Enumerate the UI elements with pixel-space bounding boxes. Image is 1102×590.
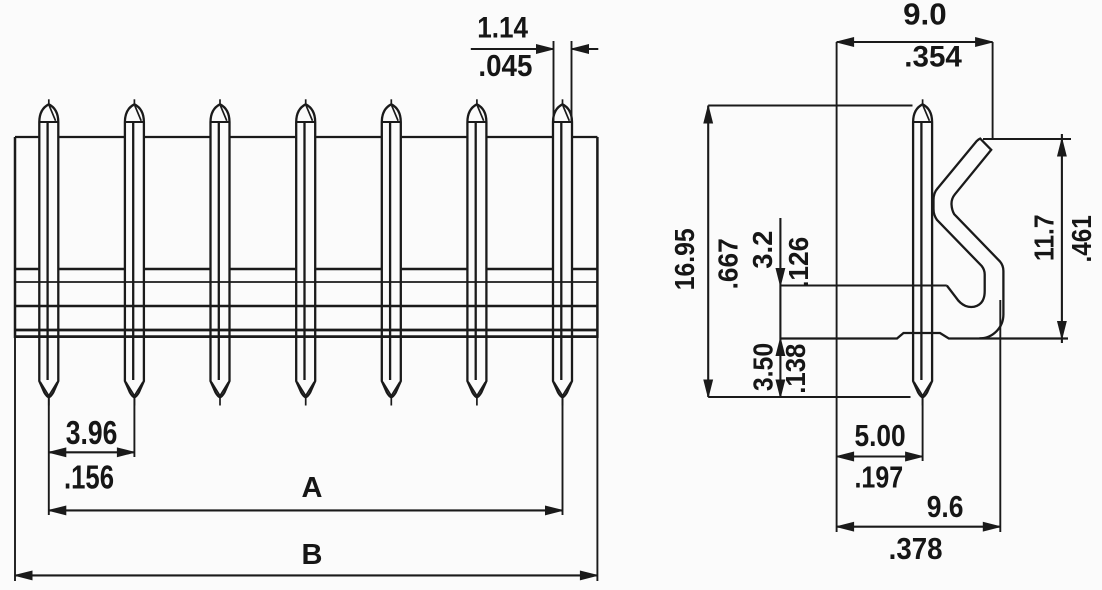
svg-text:.045: .045 [478, 48, 532, 83]
svg-text:.378: .378 [889, 532, 943, 566]
svg-text:11.7: 11.7 [1029, 214, 1060, 261]
svg-text:.156: .156 [64, 460, 114, 497]
svg-text:3.2: 3.2 [747, 231, 778, 269]
svg-text:9.0: 9.0 [903, 0, 947, 31]
svg-text:A: A [302, 472, 323, 504]
svg-text:.461: .461 [1066, 215, 1097, 262]
svg-text:16.95: 16.95 [669, 228, 700, 290]
svg-text:5.00: 5.00 [855, 419, 906, 453]
svg-text:1.14: 1.14 [477, 11, 528, 44]
svg-text:3.96: 3.96 [66, 414, 118, 451]
svg-text:.197: .197 [855, 460, 904, 494]
svg-text:B: B [302, 539, 323, 571]
svg-text:.126: .126 [783, 237, 814, 288]
svg-text:3.50: 3.50 [748, 343, 779, 391]
svg-text:.138: .138 [780, 344, 811, 394]
svg-text:.667: .667 [713, 238, 744, 289]
svg-text:.354: .354 [904, 41, 962, 74]
svg-text:9.6: 9.6 [927, 490, 964, 524]
